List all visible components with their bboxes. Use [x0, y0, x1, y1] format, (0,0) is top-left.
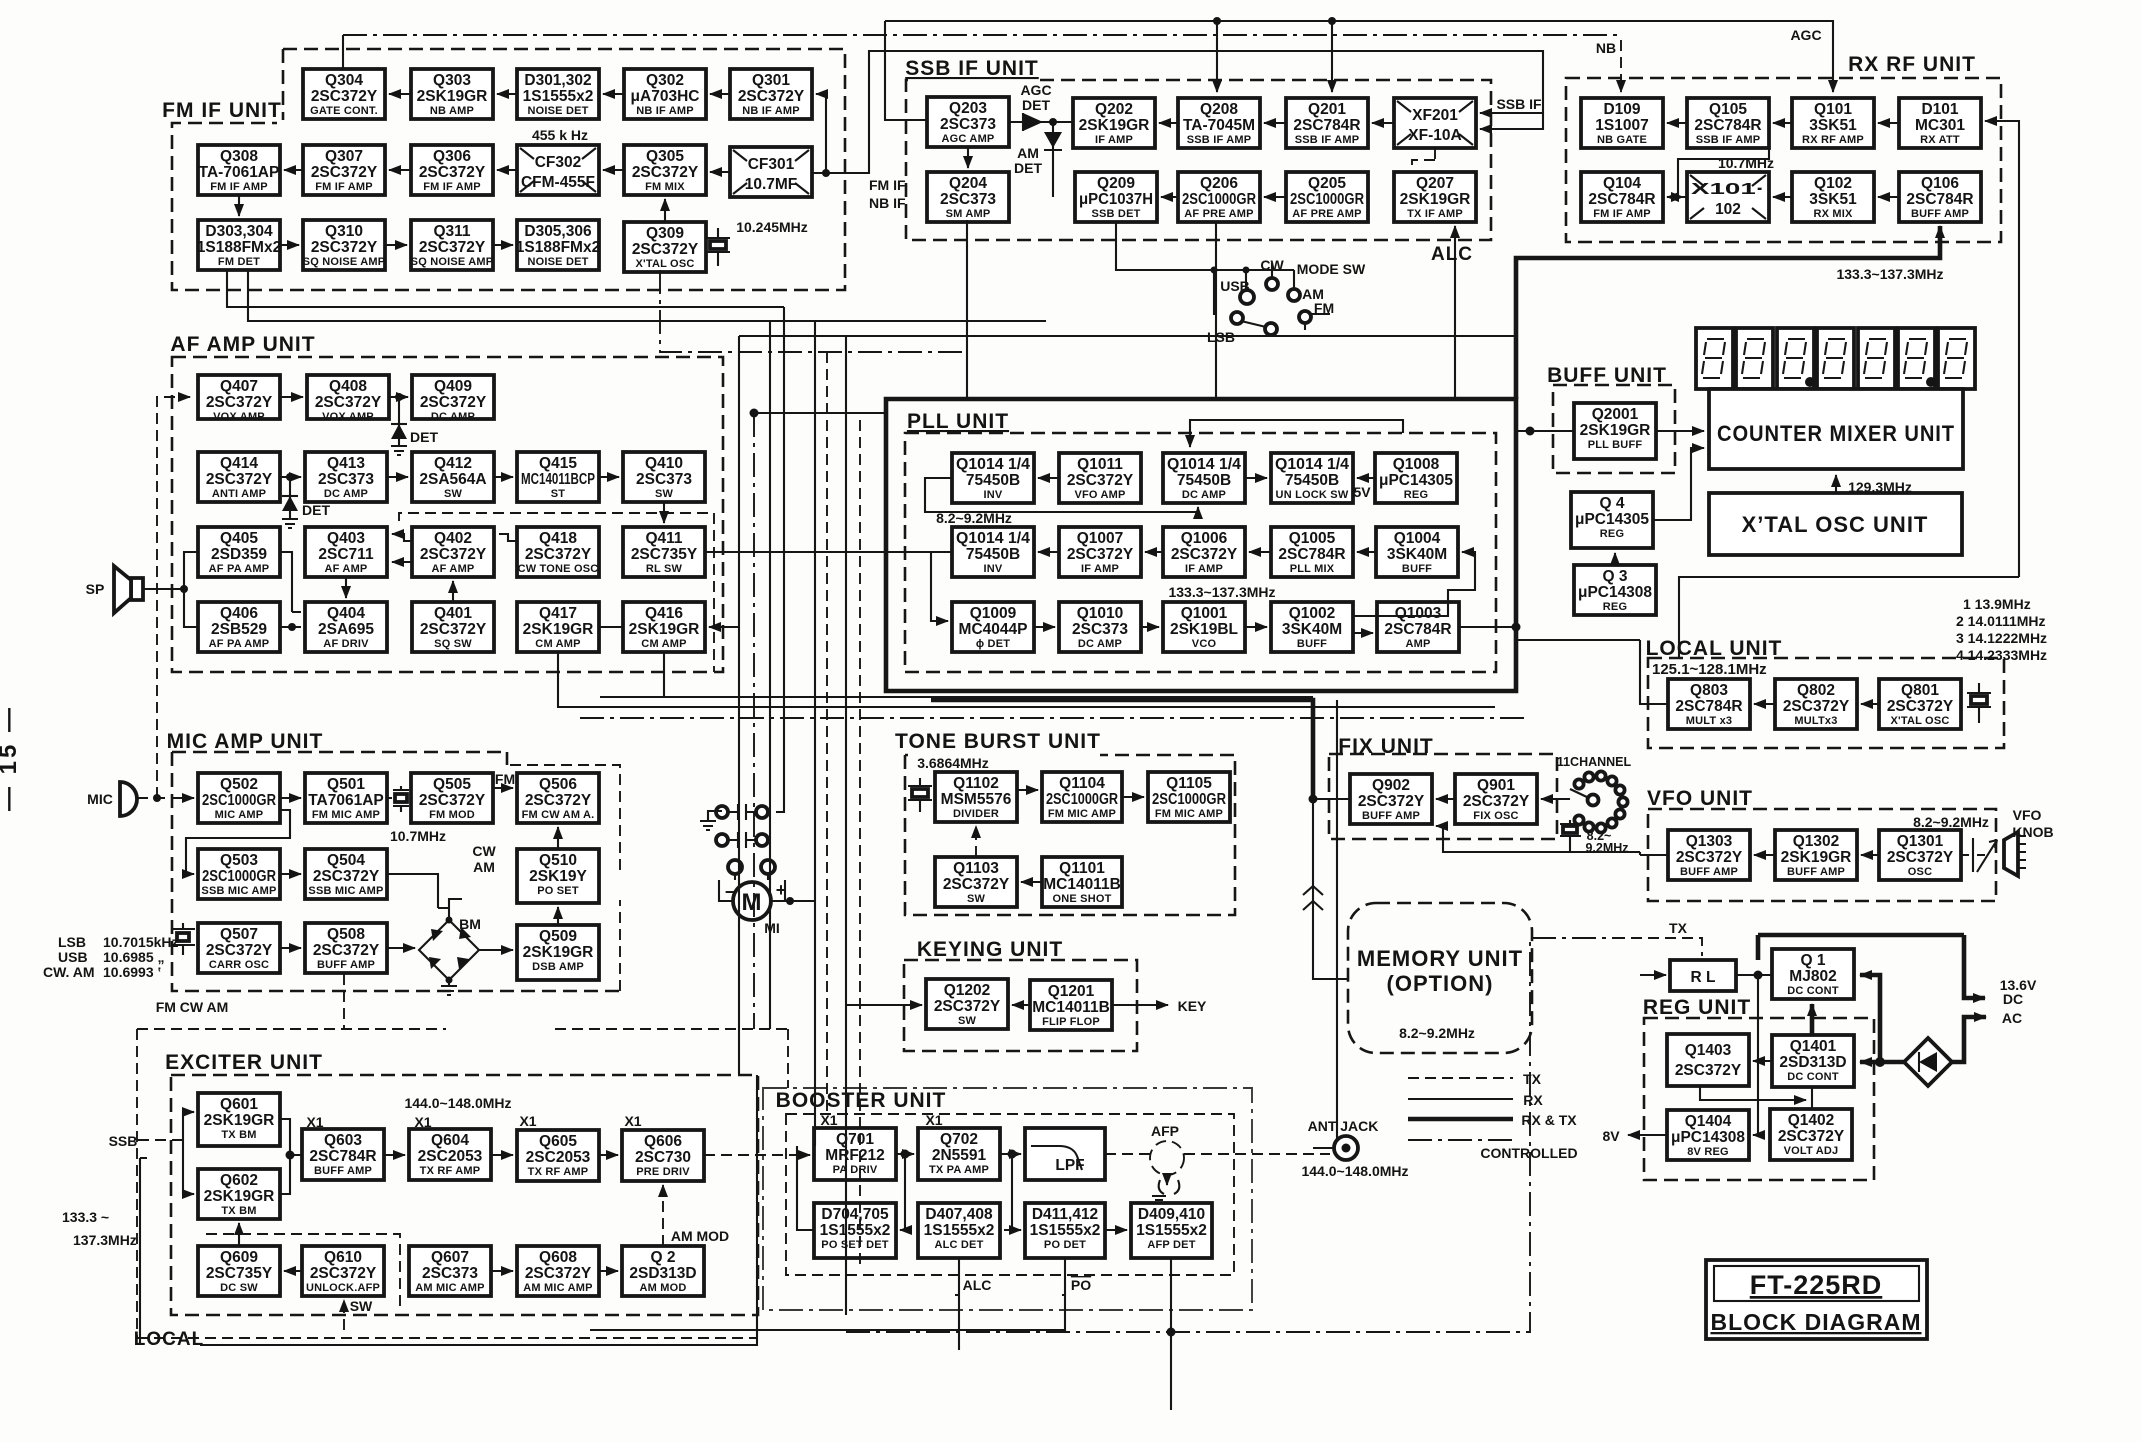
wire Q609 up to Q602 [238, 1223, 240, 1246]
svg-text:FM MIC AMP: FM MIC AMP [1048, 808, 1116, 820]
svg-text:Q702: Q702 [940, 1131, 978, 1148]
transistor Q1002 [1271, 602, 1353, 652]
transistor Q201 [1286, 98, 1368, 148]
wire local mult feed [1516, 639, 1640, 641]
transistor Q507 [198, 923, 280, 973]
svg-text:MSM5576: MSM5576 [941, 791, 1012, 808]
svg-text:OSC: OSC [1908, 866, 1932, 878]
wire pll underside dashdot [580, 717, 1530, 719]
svg-text:DET: DET [410, 429, 438, 445]
svg-text:ANTI AMP: ANTI AMP [212, 488, 266, 500]
svg-text:2SC784R: 2SC784R [1906, 191, 1973, 208]
svg-text:1S1555x2: 1S1555x2 [924, 1222, 995, 1239]
svg-text:DSB AMP: DSB AMP [532, 961, 584, 973]
svg-text:2SC784R: 2SC784R [1694, 117, 1761, 134]
svg-text:FIX OSC: FIX OSC [1473, 810, 1518, 822]
svg-text:IF AMP: IF AMP [1185, 563, 1223, 575]
transistor Q416 [623, 602, 705, 652]
svg-text:Q501: Q501 [327, 776, 365, 793]
transistor Q803 [1668, 679, 1750, 729]
wire booster po set feed [797, 1146, 814, 1230]
svg-text:2SC372Y: 2SC372Y [1675, 1062, 1742, 1079]
transistor Q702 [918, 1128, 1000, 1180]
wire Q1014b to Q1014c unlock [1245, 477, 1267, 479]
svg-text:DC CONT: DC CONT [1787, 1071, 1839, 1083]
wire Q606 output dashed to booster [704, 1154, 810, 1156]
wire Q205 to Q206 [1264, 196, 1286, 198]
svg-text:Q1010: Q1010 [1077, 605, 1124, 622]
COUNTER MIXER UNIT box [1709, 389, 1963, 469]
svg-text:Q403: Q403 [327, 530, 365, 547]
AF AMP unit dashed outline [172, 357, 723, 672]
svg-text:μPC1037H: μPC1037H [1079, 191, 1153, 208]
svg-text:Q415: Q415 [539, 455, 577, 472]
svg-text:BM: BM [459, 916, 481, 932]
wire into XF201 lower [1480, 113, 1543, 129]
transistor Q510 [517, 849, 599, 903]
svg-text:BUFF: BUFF [1297, 638, 1327, 650]
svg-text:−: − [725, 882, 736, 902]
svg-text:2N5591: 2N5591 [932, 1147, 987, 1164]
svg-text:FM IF AMP: FM IF AMP [210, 181, 268, 193]
svg-text:AGC AMP: AGC AMP [942, 133, 995, 145]
svg-text:2SC784R: 2SC784R [1675, 698, 1742, 715]
svg-text:Q902: Q902 [1372, 777, 1410, 794]
svg-text:FM IF AMP: FM IF AMP [315, 181, 373, 193]
wire Q1007 to Q1014d [1038, 551, 1059, 553]
IC Q1404 [1667, 1110, 1749, 1160]
svg-text:MIC: MIC [87, 791, 113, 807]
svg-text:X1: X1 [820, 1112, 837, 1128]
svg-text:2SC372Y: 2SC372Y [1778, 1128, 1845, 1145]
svg-text:Q202: Q202 [1095, 101, 1133, 118]
svg-text:Q208: Q208 [1200, 101, 1238, 118]
wire AC arrow [1952, 1017, 1986, 1062]
wire Q1401 up to Q1 [1810, 1004, 1815, 1035]
IC Q1014b [1163, 453, 1245, 503]
wire FM det bus 1 [227, 270, 784, 307]
transistor Q1302 [1775, 830, 1857, 880]
svg-text:R L: R L [1691, 969, 1716, 986]
svg-text:X1: X1 [925, 1112, 942, 1128]
svg-text:4 14.2333MHz: 4 14.2333MHz [1956, 647, 2047, 663]
svg-text:2SC373: 2SC373 [422, 1265, 478, 1282]
wire Q1005 to Q1006 [1249, 551, 1271, 553]
svg-text:Q 4: Q 4 [1600, 495, 1625, 512]
svg-text:X1: X1 [624, 1113, 641, 1129]
svg-text:2SC372Y: 2SC372Y [1067, 546, 1134, 563]
svg-text:DIVIDER: DIVIDER [953, 808, 999, 820]
wire Q102 to X101 [1773, 196, 1792, 198]
transistor Q402 [412, 527, 494, 577]
svg-text:COUNTER MIXER UNIT: COUNTER MIXER UNIT [1717, 421, 1955, 446]
transistor Q403 [305, 527, 387, 577]
exciter outer dashed frame [137, 1029, 788, 1338]
svg-text:Q1202: Q1202 [944, 982, 991, 999]
svg-text:2SK19GR: 2SK19GR [204, 1112, 275, 1129]
wire thick top feed to Q1 [1758, 935, 1964, 960]
svg-text:3SK40M: 3SK40M [1387, 546, 1447, 563]
svg-text:Q418: Q418 [539, 530, 577, 547]
wire CF301 to Q305 [710, 171, 730, 173]
transistor Q304 [303, 69, 385, 119]
svg-text:2SC372Y: 2SC372Y [420, 546, 487, 563]
wire TX dashed to RL [1614, 938, 1702, 956]
PLL thick bus rectangle [886, 399, 1516, 691]
wire BM to Q509 [479, 949, 513, 951]
transistor Q608 [517, 1246, 599, 1296]
svg-text:FM IF AMP: FM IF AMP [1593, 208, 1651, 220]
wire AGC det junction to Q202 [1053, 121, 1073, 123]
transistor Q1001 [1163, 602, 1245, 652]
transistor Q1011 [1059, 453, 1141, 503]
IC Q1201 [1030, 980, 1112, 1030]
svg-text:USB10.6985 „: USB10.6985 „ [58, 949, 165, 965]
svg-text:2SC372Y: 2SC372Y [206, 471, 273, 488]
svg-text:2SC373: 2SC373 [1072, 621, 1128, 638]
bus vertical v6 dashed [826, 352, 828, 1113]
svg-text:2SC1000GR: 2SC1000GR [1152, 791, 1226, 808]
svg-text:SW: SW [967, 893, 986, 905]
svg-text:Q606: Q606 [644, 1133, 682, 1150]
svg-text:3 14.1222MHz: 3 14.1222MHz [1956, 630, 2047, 646]
wire Q308 down to D303 [238, 195, 240, 216]
transistor Q1301 [1879, 830, 1961, 880]
svg-text:VOX AMP: VOX AMP [322, 411, 374, 423]
transistor Q503 [198, 849, 280, 899]
svg-text:125.1~128.1MHz: 125.1~128.1MHz [1652, 661, 1767, 678]
wire PO down from D411 [590, 1258, 1065, 1330]
svg-text:2SC372Y: 2SC372Y [525, 1265, 592, 1282]
IC Q209 [1075, 172, 1157, 222]
svg-text:2SC372Y: 2SC372Y [419, 792, 486, 809]
wire Q414 to Q413 [280, 476, 301, 478]
svg-text:VFO UNIT: VFO UNIT [1647, 787, 1753, 810]
IC Q1014c [1271, 453, 1353, 503]
wire Q304 top to dashdot bus [342, 35, 344, 69]
wire Q413 to Q412 dashed [387, 476, 408, 478]
crystal between Q501 and Q505 [387, 786, 411, 812]
X TAL OSC UNIT box [1709, 493, 1962, 555]
wire Q201 to Q208 [1264, 122, 1286, 124]
svg-text:REG: REG [1404, 489, 1428, 501]
svg-text:DC CONT: DC CONT [1787, 985, 1839, 997]
svg-text:BUFF AMP: BUFF AMP [1362, 810, 1420, 822]
crystal fix [1560, 820, 1581, 844]
svg-text:Q102: Q102 [1814, 175, 1852, 192]
svg-text:PO SET DET: PO SET DET [821, 1239, 888, 1251]
wire Q402 to Q403 lower [392, 561, 412, 563]
svg-text:2SC372Y: 2SC372Y [419, 164, 486, 181]
svg-text:MULTx3: MULTx3 [1794, 715, 1837, 727]
svg-text:KEYING UNIT: KEYING UNIT [917, 938, 1063, 961]
wire Q403 down to Q404 [345, 577, 347, 598]
transistor Q204 [927, 172, 1009, 222]
wire AFP from D409 down [1170, 1258, 1172, 1410]
svg-text:137.3MHz: 137.3MHz [73, 1232, 137, 1248]
wire D303 to Q310 [280, 244, 299, 246]
wire ant jack up to keying area [1336, 700, 1338, 1140]
svg-text:Q506: Q506 [539, 776, 577, 793]
crystal X for Q309 [706, 228, 730, 266]
svg-text:Q203: Q203 [949, 100, 987, 117]
wire Q101 to Q105 [1773, 122, 1792, 124]
svg-text:Q302: Q302 [646, 72, 684, 89]
svg-text:D101: D101 [1921, 101, 1958, 118]
svg-text:SSB DET: SSB DET [1091, 208, 1140, 220]
svg-text:MI: MI [764, 920, 780, 936]
svg-text:Q1014 1/4: Q1014 1/4 [1167, 456, 1241, 473]
svg-text:Q610: Q610 [324, 1249, 362, 1266]
diodes D407,408 [918, 1203, 1000, 1258]
svg-text:DET: DET [1022, 97, 1050, 113]
wire LPF tap to D407 D411 [1004, 1154, 1021, 1230]
wire FM IF output riser [812, 51, 1543, 173]
diode D109 [1581, 98, 1663, 148]
wire dash-dot control bus [343, 34, 1621, 36]
wire Q305 to CF302 [603, 169, 624, 171]
svg-text:Q105: Q105 [1709, 101, 1747, 118]
IC Q1102 [935, 772, 1017, 822]
SSB IF unit dashed outline [906, 80, 1491, 240]
bus vertical v4 [776, 307, 784, 812]
svg-text:1S188FMx2: 1S188FMx2 [516, 239, 600, 256]
transistor Q610 [302, 1246, 384, 1296]
svg-text:AC: AC [2002, 1010, 2022, 1026]
svg-text:2SC1000GR: 2SC1000GR [1290, 191, 1364, 208]
wire Q106 to Q102 [1878, 196, 1899, 198]
svg-text:D109: D109 [1603, 101, 1640, 118]
svg-text:133.3~137.3MHz: 133.3~137.3MHz [1168, 584, 1275, 600]
wire Q608 to Q2 [599, 1270, 618, 1272]
wire Q1002 to Q1003 [1353, 632, 1373, 634]
svg-text:2SK19GR: 2SK19GR [523, 621, 594, 638]
transistor Q418 [517, 527, 599, 577]
svg-text:10.245MHz: 10.245MHz [736, 219, 808, 235]
svg-text:75450B: 75450B [966, 546, 1020, 563]
svg-text:Q308: Q308 [220, 148, 258, 165]
svg-text:2SA695: 2SA695 [318, 621, 374, 638]
wire Q1011 to Q1014a [1038, 477, 1059, 479]
wire Q2001 to counter mixer [1656, 430, 1704, 432]
IC Q1014a [952, 453, 1034, 503]
wire Q1301 to Q1302 [1861, 854, 1879, 856]
svg-text:D411,412: D411,412 [1032, 1206, 1098, 1223]
svg-text:PRE DRIV: PRE DRIV [636, 1166, 690, 1178]
svg-text:Q101: Q101 [1814, 101, 1852, 118]
svg-text:144.0~148.0MHz: 144.0~148.0MHz [404, 1095, 511, 1111]
legend TX dashed [1408, 1077, 1513, 1079]
svg-text:Q601: Q601 [220, 1096, 258, 1113]
svg-text:Q502: Q502 [220, 776, 258, 793]
svg-text:Q412: Q412 [434, 455, 472, 472]
svg-text:2SD313D: 2SD313D [1779, 1054, 1846, 1071]
wire Q803 output to left bus [1640, 640, 1668, 704]
wire Q4 to counter mixer lower [1653, 448, 1704, 520]
svg-text:Q106: Q106 [1921, 175, 1959, 192]
transistor Q2 [622, 1246, 704, 1296]
svg-text:2SK19GR: 2SK19GR [629, 621, 700, 638]
svg-text:8V REG: 8V REG [1687, 1146, 1729, 1158]
wire D101 to Q101 [1878, 122, 1899, 124]
svg-text:Q305: Q305 [646, 148, 684, 165]
svg-text:μPC14308: μPC14308 [1578, 584, 1652, 601]
wire Q405 Q406 left common to SP [143, 552, 198, 627]
diode AM det [1044, 118, 1062, 197]
relay contact upper [716, 804, 768, 820]
svg-text:DC AMP: DC AMP [431, 411, 475, 423]
wire Q1009 to Q1010 [1034, 626, 1055, 628]
wire BM top to Q505 Q504 [387, 874, 462, 920]
svg-text:2SC372Y: 2SC372Y [310, 1265, 377, 1282]
svg-text:2SC372Y: 2SC372Y [311, 239, 378, 256]
svg-text:2SC372Y: 2SC372Y [738, 88, 805, 105]
svg-text:SM AMP: SM AMP [946, 208, 991, 220]
speaker SP symbol [114, 566, 143, 613]
wire Q502 to Q501 [280, 797, 301, 799]
wire Q410 down to Q411 [663, 502, 665, 523]
svg-text:Q1003: Q1003 [1395, 605, 1442, 622]
transistor Q405 [198, 527, 280, 577]
svg-text:2SC372Y: 2SC372Y [1463, 793, 1530, 810]
svg-text:Q1008: Q1008 [1393, 456, 1440, 473]
svg-text:Q605: Q605 [539, 1133, 577, 1150]
svg-text:Q503: Q503 [220, 852, 258, 869]
svg-text:2SC372Y: 2SC372Y [313, 942, 380, 959]
wire Q605 to Q606 dashed [599, 1154, 618, 1156]
transistor Q303 [411, 69, 493, 119]
transistor Q406 [198, 602, 280, 652]
svg-text:TX BM: TX BM [221, 1129, 256, 1141]
AFP lamp circle [1150, 1141, 1184, 1203]
svg-text:SQ NOISE AMP: SQ NOISE AMP [411, 256, 494, 268]
IC Q3 [1574, 565, 1656, 615]
svg-text:D704,705: D704,705 [821, 1206, 889, 1223]
wire Q408 to Q409 [389, 396, 408, 398]
svg-text:REG: REG [1600, 528, 1624, 540]
svg-text:FLIP FLOP: FLIP FLOP [1042, 1016, 1100, 1028]
svg-text:2SC2053: 2SC2053 [418, 1148, 483, 1165]
wire D301 to Q303 [497, 93, 517, 95]
svg-text:2SK19GR: 2SK19GR [523, 944, 594, 961]
AF AMP inner dashed outline [399, 513, 714, 672]
svg-text:BLOCK DIAGRAM: BLOCK DIAGRAM [1710, 1309, 1921, 1335]
svg-text:LOCAL: LOCAL [134, 1329, 204, 1350]
svg-text:RX ATT: RX ATT [1920, 134, 1960, 146]
svg-text:2SC2053: 2SC2053 [526, 1149, 591, 1166]
IC Q1009 [952, 602, 1034, 652]
diodes D704,705 [814, 1203, 896, 1258]
wire bridge right to 13.6V DC [1964, 935, 1985, 998]
diodes D301,302 [517, 69, 599, 119]
wire SM amp drop [966, 220, 968, 399]
wire SSB af pre amp drop [1215, 222, 1217, 399]
svg-text:Q405: Q405 [220, 530, 258, 547]
crystal left of Q507 [171, 923, 195, 955]
transistor Q404 [305, 602, 387, 652]
svg-text:FM CW AM A.: FM CW AM A. [522, 809, 595, 821]
wire Q702 to LPF [1000, 1153, 1021, 1155]
wire VOX dashed from MIC riser [157, 397, 190, 798]
svg-text:1S188FMx2: 1S188FMx2 [197, 239, 281, 256]
filter XF201 [1394, 98, 1476, 148]
transistor Q202 [1073, 98, 1155, 148]
switch wires [1211, 263, 1331, 330]
wire Q302 to D301 [603, 93, 624, 95]
transistor Q606 [622, 1130, 704, 1181]
svg-text:BUFF UNIT: BUFF UNIT [1547, 364, 1667, 387]
svg-text:FM MIC AMP: FM MIC AMP [312, 809, 380, 821]
transistor Q607 [409, 1246, 491, 1296]
wire 133MHz injection into Q106 [1516, 226, 1940, 399]
wire into Q601 [172, 1112, 183, 1194]
svg-text:VFO AMP: VFO AMP [1074, 489, 1125, 501]
svg-text:SSB MIC AMP: SSB MIC AMP [308, 885, 383, 897]
svg-text:SSB IF AMP: SSB IF AMP [1187, 134, 1252, 146]
svg-text:2SC372Y: 2SC372Y [206, 942, 273, 959]
svg-text:Q207: Q207 [1416, 175, 1454, 192]
wire motor leads [719, 880, 815, 901]
IC Q501 [305, 773, 387, 823]
wire 8V out of Q1404 [1628, 1134, 1667, 1136]
svg-text:SW: SW [444, 488, 463, 500]
transistor Q407 [198, 375, 280, 423]
svg-text:IF AMP: IF AMP [1081, 563, 1119, 575]
svg-text:BUFF: BUFF [1402, 563, 1432, 575]
svg-text:TX: TX [1669, 920, 1688, 936]
wire Q507 to Q508 [280, 947, 301, 949]
svg-text:Q801: Q801 [1901, 682, 1939, 699]
wire Q1010 to Q1001 [1141, 626, 1159, 628]
svg-text:2SB529: 2SB529 [211, 621, 267, 638]
svg-text:BOOSTER UNIT: BOOSTER UNIT [776, 1089, 947, 1112]
svg-text:X'TAL OSC: X'TAL OSC [1890, 715, 1949, 727]
transistor Q307 [303, 145, 385, 195]
svg-text:RX RF AMP: RX RF AMP [1802, 134, 1864, 146]
transistor Q203 [927, 97, 1009, 147]
microphone symbol [120, 782, 137, 816]
transistor Q301 [730, 69, 812, 119]
svg-text:Q 1: Q 1 [1801, 952, 1826, 969]
transistor Q1003 [1377, 602, 1459, 652]
transistor Q306 [411, 145, 493, 195]
svg-text:AFP DET: AFP DET [1147, 1239, 1195, 1251]
wire Q1 vertical to Q1404 [1753, 975, 1758, 1135]
filter CF301 [730, 147, 812, 197]
svg-text:MRF212: MRF212 [825, 1147, 884, 1164]
svg-text:102: 102 [1715, 201, 1741, 218]
wire Q801 to Q802 [1861, 703, 1879, 705]
svg-text:Q803: Q803 [1690, 682, 1728, 699]
svg-text:REG UNIT: REG UNIT [1643, 996, 1751, 1019]
wire ALC down from D407 [955, 1258, 959, 1350]
wire bridge branch to Q1 [1860, 975, 1880, 1062]
svg-text:Q602: Q602 [220, 1172, 258, 1189]
svg-text:Q1105: Q1105 [1166, 775, 1212, 792]
svg-text:2SC735Y: 2SC735Y [206, 1265, 273, 1282]
wire NB dashed drop to D109 [1620, 40, 1622, 92]
transistor Q605 [517, 1130, 599, 1181]
svg-text:Q408: Q408 [329, 378, 367, 395]
wire Q508 to BM [387, 947, 415, 949]
transistor Q601 [198, 1093, 280, 1146]
svg-text:2SC373: 2SC373 [940, 191, 996, 208]
svg-text:2SC372Y: 2SC372Y [313, 868, 380, 885]
MIC AMP inner dashed outline right [507, 765, 620, 991]
svg-text:DET: DET [302, 502, 330, 518]
svg-text:KNOB: KNOB [2012, 824, 2053, 840]
svg-text:CW. AM10.6993 ‛: CW. AM10.6993 ‛ [43, 964, 161, 980]
